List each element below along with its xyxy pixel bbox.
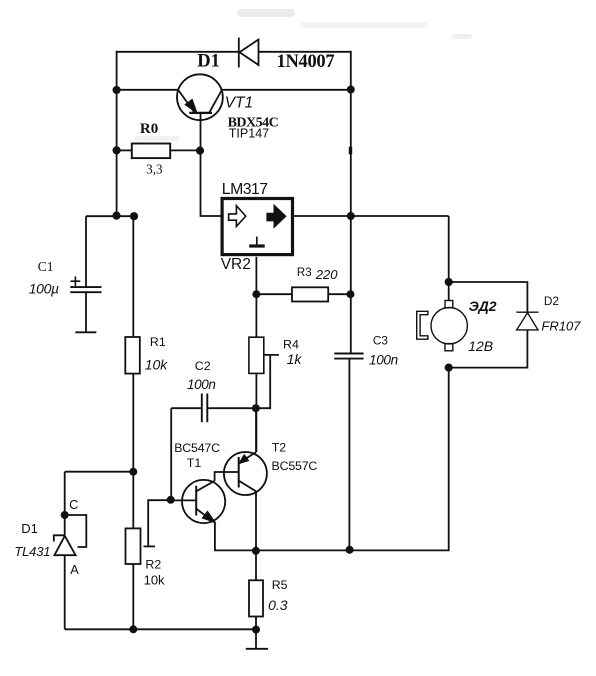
wire motor feed down [448, 216, 450, 301]
svg-text:10k: 10k [144, 573, 165, 588]
wire R3 left lead [256, 293, 292, 295]
svg-text:C3: C3 [373, 334, 389, 348]
svg-text:D1: D1 [197, 51, 220, 71]
svg-text:R2: R2 [145, 557, 161, 571]
svg-text:BC547C: BC547C [174, 441, 220, 455]
wire motor bottom to D2 bottom [449, 330, 528, 368]
wire VT1 collector right [222, 89, 351, 91]
svg-text:3,3: 3,3 [146, 162, 163, 177]
resistor R2 [126, 528, 141, 564]
resistor R5 [249, 580, 263, 616]
wire R0 left lead [117, 149, 132, 151]
capacitor C3 [334, 354, 363, 550]
svg-text:C2: C2 [195, 359, 211, 373]
svg-text:12В: 12В [468, 338, 493, 354]
svg-text:T1: T1 [187, 456, 202, 470]
diode D1 [239, 38, 259, 68]
node junction right rail at output [347, 212, 355, 220]
diode D2 [516, 312, 538, 330]
svg-text:D1: D1 [21, 521, 38, 536]
svg-text:1k: 1k [287, 351, 303, 367]
resistor R3 [292, 287, 328, 301]
svg-text:R3: R3 [297, 267, 312, 279]
motor ЭД2 [417, 301, 468, 351]
node junction C [61, 511, 69, 519]
wire R1 bottom lead [132, 374, 134, 529]
faint scan artifacts [135, 9, 472, 141]
wire VT1 base down to LM317 [201, 114, 223, 216]
wire R4 bottom lead [255, 374, 257, 453]
svg-text:R1: R1 [150, 335, 166, 349]
svg-text:R4: R4 [283, 338, 299, 352]
svg-text:VT1: VT1 [225, 94, 253, 111]
svg-text:10k: 10k [145, 356, 169, 372]
capacitor C2 [171, 394, 256, 423]
svg-text:C1: C1 [38, 259, 54, 274]
wire T1 emitter down [215, 523, 256, 551]
node junction T2 collector R5 [252, 547, 260, 555]
node junction R1 top [130, 212, 138, 220]
wire R1 top lead [132, 216, 134, 337]
svg-text:VR2: VR2 [221, 256, 251, 273]
wire right rail down [350, 51, 352, 353]
wire stub end bar [144, 545, 156, 547]
svg-text:LM317: LM317 [222, 181, 268, 198]
node junction rail end [112, 212, 120, 220]
transistor T2 [224, 452, 267, 495]
resistor R0 [132, 144, 170, 159]
svg-text:D2: D2 [544, 294, 559, 308]
svg-text:220: 220 [315, 267, 338, 282]
resistor R4 [249, 337, 264, 373]
node junction R2 bottom [129, 625, 137, 633]
node junction motor top [445, 278, 453, 286]
ground [246, 630, 268, 649]
wire top rail left segment [117, 51, 239, 53]
svg-text:100µ: 100µ [29, 281, 59, 297]
resistor R1 [125, 337, 140, 374]
wire motor top to D2 top [449, 282, 528, 312]
svg-text:FR107: FR107 [541, 319, 581, 334]
node junction motor bottom [445, 364, 453, 372]
wire C2 left down to T1 base [170, 408, 172, 500]
svg-text:TIP147: TIP147 [229, 127, 269, 141]
node junction right rail at VT1 [347, 86, 355, 94]
svg-text:100n: 100n [369, 352, 398, 367]
svg-text:BC557C: BC557C [272, 459, 318, 473]
node junction C3 bottom [346, 546, 354, 554]
svg-text:0.3: 0.3 [268, 597, 288, 613]
wire left rail [116, 51, 118, 216]
wire R3 right lead [328, 293, 350, 295]
node junction R3-rail [347, 290, 355, 298]
wire R0 right lead [170, 149, 200, 151]
wire TL431 cathode branch [64, 472, 66, 536]
svg-text:100n: 100n [187, 377, 215, 392]
wire VT1 emitter left [117, 89, 179, 91]
node junction R4-C2 [252, 404, 260, 412]
diode D1 TL431 [54, 535, 76, 555]
svg-text:C: C [69, 497, 78, 512]
wire T1 collector to T2 base [215, 472, 239, 481]
wire R4 tap [256, 355, 279, 408]
wire T2 emitter up [255, 408, 257, 452]
wire bottom return rail [256, 368, 449, 551]
wire bottom rail [65, 628, 256, 630]
wire top rail right segment [259, 51, 351, 53]
svg-text:R5: R5 [272, 578, 288, 592]
svg-text:ЭД2: ЭД2 [469, 298, 497, 314]
regulator VR2 LM317 box [222, 199, 292, 255]
wire divider junction horizontal [65, 471, 134, 473]
wire TL431 anode down [64, 555, 66, 629]
svg-text:1N4007: 1N4007 [277, 52, 335, 72]
svg-text:T2: T2 [272, 441, 287, 455]
node junction adj-R3 [252, 290, 260, 298]
capacitor C1 [70, 216, 101, 332]
transistor T1 [182, 480, 225, 523]
wire C1 top to rail [86, 215, 134, 217]
wire T1 base lead [171, 499, 197, 501]
svg-text:R0: R0 [140, 121, 158, 137]
node junction R5 bottom [252, 626, 260, 634]
wire R2 bottom lead [132, 564, 134, 629]
node junction left rail at VT1 [113, 86, 121, 94]
wire T1 base junction left stub [148, 500, 171, 546]
svg-text:TL431: TL431 [14, 544, 50, 559]
node junction R0-base [196, 147, 204, 155]
transistor VT1 [177, 74, 223, 120]
wire LM317 output to motor branch [293, 215, 449, 217]
node blob on right rail [349, 147, 352, 155]
wire R5 bottom lead [255, 617, 257, 630]
wire LM317 adj down [255, 257, 257, 337]
wire TL431 ref loop [65, 515, 87, 547]
svg-text:A: A [70, 562, 79, 577]
node junction R1-R2 [129, 468, 137, 476]
node junction T1 base [167, 496, 175, 504]
wire T2 collector down [255, 491, 257, 580]
node junction rail-R0 [113, 146, 121, 154]
